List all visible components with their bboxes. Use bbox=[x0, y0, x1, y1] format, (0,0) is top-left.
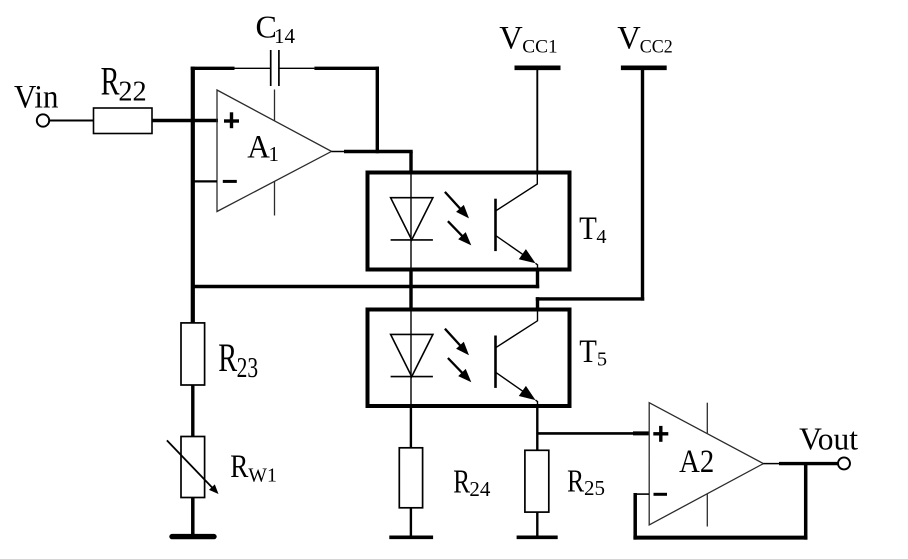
resistor R23 bbox=[181, 323, 205, 385]
ground left bbox=[172, 534, 214, 539]
wire T4 emitter feedback horizontal to rail bbox=[191, 285, 539, 288]
svg-text:V: V bbox=[617, 20, 641, 56]
op-amp A1 top power pin bbox=[274, 90, 276, 122]
wire T4 emitter down bbox=[536, 270, 539, 289]
wire C14 right plate thin bbox=[279, 67, 315, 69]
wire A2 feedback vertical right bbox=[804, 464, 808, 540]
svg-text:23: 23 bbox=[237, 353, 258, 383]
wire A2 + input thick stub bbox=[633, 431, 649, 435]
svg-text:R: R bbox=[453, 463, 470, 501]
transistor T5 collector bbox=[496, 310, 538, 348]
svg-text:T: T bbox=[579, 210, 597, 246]
svg-text:Vout: Vout bbox=[799, 421, 858, 456]
svg-text:22: 22 bbox=[118, 77, 146, 108]
wire VCC1 to T4 collector bbox=[536, 70, 538, 173]
op-amp A2 bottom power pin bbox=[706, 494, 708, 526]
svg-text:Vin: Vin bbox=[14, 79, 59, 115]
wire R23 to RW1 bbox=[191, 385, 194, 438]
wire VCC2 vertical bbox=[641, 70, 644, 301]
svg-text:T: T bbox=[579, 333, 597, 369]
wire A1 output thick bbox=[344, 150, 413, 153]
transistor T4 collector bbox=[496, 173, 538, 212]
T5 light arrow 2 bbox=[448, 358, 471, 382]
op-amp A1 bottom power pin bbox=[274, 181, 276, 216]
svg-text:A: A bbox=[247, 128, 270, 165]
wire T5 LED vertical bbox=[409, 270, 412, 309]
wire R22 to A1 + input bbox=[152, 119, 218, 122]
resistor R22 bbox=[94, 108, 153, 134]
wire R25 to ground bbox=[536, 512, 538, 537]
svg-text:1: 1 bbox=[269, 142, 280, 166]
T4 light arrow 1 bbox=[445, 192, 469, 219]
svg-text:R: R bbox=[101, 59, 120, 104]
svg-text:CC2: CC2 bbox=[640, 36, 673, 58]
power VCC1 bar bbox=[515, 66, 561, 71]
wire A1 minus input bbox=[193, 180, 217, 182]
op-amp A2 top power pin bbox=[706, 403, 708, 434]
wire left feedback rail bbox=[191, 67, 195, 324]
svg-text:V: V bbox=[499, 20, 523, 56]
wire top feedback thick left segment bbox=[191, 67, 235, 70]
RW1 wiper arrow bbox=[167, 440, 219, 494]
power VCC2 bar bbox=[621, 66, 667, 71]
wire feedback vertical to A1 output bbox=[376, 67, 379, 154]
wire A2 output thick bbox=[779, 462, 838, 465]
svg-text:4: 4 bbox=[596, 226, 606, 248]
ground R24 bbox=[389, 535, 433, 539]
svg-text:25: 25 bbox=[584, 476, 605, 500]
wire A1 output thin bbox=[332, 151, 345, 153]
resistor R25 bbox=[525, 450, 549, 512]
op-amp A2 plus sign bbox=[653, 426, 668, 442]
diode T5 LED bbox=[391, 334, 433, 376]
transistor T5 emitter with arrow bbox=[496, 372, 538, 406]
resistor R24 bbox=[399, 448, 422, 508]
transistor T5 base bar bbox=[494, 336, 497, 388]
transistor T4 emitter with arrow bbox=[496, 235, 538, 269]
potentiometer RW1 bbox=[181, 437, 205, 498]
capacitor C14 bbox=[271, 50, 279, 86]
wire T5 emitter to R25 bbox=[536, 406, 538, 450]
node Vout terminal bbox=[838, 457, 850, 469]
optocoupler T4 box bbox=[368, 173, 570, 270]
wire RW1 to ground bbox=[191, 498, 195, 536]
svg-text:CC1: CC1 bbox=[522, 36, 557, 57]
op-amp A1 minus sign bbox=[223, 180, 237, 183]
wire down to T4 LED anode bbox=[409, 152, 412, 175]
wire T5 LED vertical inner bbox=[410, 311, 412, 405]
transistor T4 base bar bbox=[494, 199, 497, 251]
wire top feedback thick right segment bbox=[314, 67, 379, 70]
svg-text:14: 14 bbox=[274, 24, 296, 48]
T4 light arrow 2 bbox=[448, 221, 471, 245]
wire T4 LED vertical bbox=[410, 174, 412, 269]
ground R25 bbox=[517, 535, 558, 539]
op-amp A1 plus sign bbox=[224, 112, 239, 128]
op-amp A1 bbox=[217, 90, 332, 212]
wire T5 LED to R24 bbox=[410, 406, 412, 449]
wire A2 minus input bbox=[635, 493, 649, 495]
wire A2 feedback bottom bbox=[633, 536, 807, 540]
wire thin to C14 left plate bbox=[235, 67, 271, 69]
wire R24 to ground bbox=[410, 507, 412, 537]
op-amp A2 bbox=[649, 403, 763, 525]
svg-text:5: 5 bbox=[597, 349, 607, 371]
wire T5 collector vertical bbox=[536, 297, 539, 311]
T5 light arrow 1 bbox=[445, 329, 469, 356]
wire A2 output thin bbox=[763, 463, 779, 465]
svg-text:R: R bbox=[218, 335, 237, 380]
svg-text:A2: A2 bbox=[679, 442, 714, 479]
wire VCC2 horizontal to T5 collector bbox=[536, 297, 644, 300]
op-amp A2 minus sign bbox=[654, 493, 668, 496]
diode T4 LED bbox=[391, 198, 433, 240]
svg-text:W1: W1 bbox=[248, 464, 277, 486]
wire A2 feedback vertical left bbox=[633, 493, 637, 540]
svg-text:R: R bbox=[567, 464, 585, 499]
optocoupler T5 box bbox=[368, 310, 570, 407]
svg-text:R: R bbox=[230, 449, 248, 485]
svg-text:24: 24 bbox=[469, 477, 491, 501]
node Vin terminal bbox=[37, 114, 49, 126]
wire Vin to R22 bbox=[50, 120, 94, 122]
wire T5 emitter to A2 + input bbox=[537, 432, 649, 435]
